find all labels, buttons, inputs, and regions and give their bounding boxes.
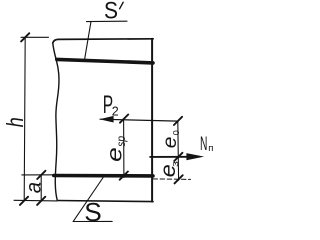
P2 arrowhead (points left) [99,116,113,123]
h dim: bottom extension line [14,199,57,202]
member bottom edge [57,201,153,202]
h tick bottom [20,197,28,205]
a tick top [37,171,45,179]
leader line of S [73,177,104,222]
member left wavy break edge [53,43,59,201]
N force shaft [150,156,190,158]
svg-text:e: e [160,137,181,149]
svg-text:п: п [208,143,213,154]
e0 tick top [174,117,182,125]
h dimension line [24,37,25,201]
e3 tick bottom [175,175,183,183]
e_sp tick top [120,115,128,123]
a dim: extension line at bar S level [22,174,57,176]
e3 bottom dashed extension line [153,178,191,181]
member right edge [151,39,153,202]
reinforcement bar S (bottom) [54,174,153,178]
svg-text:sp: sp [114,136,128,147]
underline of S [73,220,112,222]
e0 / e3 dimension line [177,121,180,180]
e_sp tick bottom [120,172,128,180]
label e_3 (rotated) [157,161,181,177]
svg-text:2: 2 [112,104,119,118]
svg-text:S: S [104,0,118,25]
N arrowhead (points right) [186,153,204,160]
label e_sp (rotated) [104,136,129,162]
a tick bottom [37,197,45,205]
reinforcement bar S' (top) [57,59,153,63]
label e_0 (rotated) [160,130,181,148]
e0/e3 middle tick at N line [174,153,182,161]
svg-text:з: з [170,161,181,167]
P2 force action line [100,119,178,121]
label h (rotated) [2,117,28,127]
h tick top [21,33,29,41]
a dimension line [40,175,42,201]
member top edge [53,39,153,43]
h dim: top extension line [21,36,49,38]
label a (rotated) [22,182,45,193]
svg-text:S: S [84,199,102,227]
svg-text:e: e [104,147,127,162]
underline of S' [87,20,128,22]
svg-text:h: h [2,117,28,127]
svg-text:0: 0 [171,130,181,135]
svg-text:a: a [22,182,45,193]
svg-text:N: N [200,133,207,155]
leader line of S' [85,21,92,60]
e_sp dimension line [123,120,125,178]
